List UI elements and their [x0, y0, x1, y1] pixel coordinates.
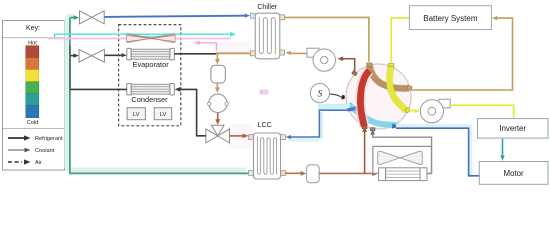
svg-text:Cold: Cold — [27, 120, 39, 126]
wire black valve to condenser — [175, 87, 206, 136]
wire tan chiller top-right to octovalve and battery — [285, 17, 369, 61]
wire yellow pump P2 to inverter — [450, 105, 513, 118]
LCC body — [254, 133, 281, 179]
wire teal inverter to motor — [500, 138, 504, 161]
coolant pump P2 (inverter loop) — [420, 99, 450, 123]
wire tan junction to chiller bottom-left — [216, 52, 251, 54]
wire tan compressor pump feed from octovalve — [337, 56, 354, 72]
wire black branch to valve V2 — [70, 53, 78, 57]
chiller ports — [250, 13, 284, 56]
LCC label — [258, 122, 272, 129]
legend air arrow — [8, 159, 42, 166]
inverter box — [478, 119, 549, 139]
temperature gradient bar — [26, 46, 39, 118]
wire black valve V2 to evaporator — [105, 53, 127, 57]
octovalve yellow channel — [389, 66, 406, 111]
radiator fan — [378, 151, 423, 164]
teal line end at LCC bottom-left port — [244, 172, 249, 174]
air line cyan — [55, 32, 236, 39]
cabin blower fan — [126, 33, 175, 42]
svg-text:Battery System: Battery System — [423, 14, 478, 23]
motor box — [479, 162, 548, 185]
LV box 2 — [154, 108, 172, 120]
wire black evaporator out — [174, 53, 217, 55]
radiator fan box — [373, 146, 432, 173]
label Chiller — [257, 4, 278, 11]
blue arrow out of octovalve cyan channel — [392, 124, 400, 129]
octovalve tan channel — [370, 66, 410, 89]
svg-text:Inverter: Inverter — [499, 124, 526, 133]
valve V1 — [80, 11, 105, 24]
compressor — [208, 94, 229, 112]
LCC ports — [249, 135, 286, 176]
coolant pump P1 (chiller loop) — [307, 48, 335, 71]
octovalve halo — [345, 63, 413, 131]
sensor arrow to octovalve — [330, 94, 350, 100]
svg-text:S: S — [318, 89, 323, 99]
wire yellow octovalve to pump P2 — [408, 109, 421, 113]
wire gray radiator to octovalve — [370, 129, 431, 174]
svg-text:Motor: Motor — [504, 169, 525, 178]
svg-text:Key:: Key: — [26, 25, 40, 32]
octovalve indigo channel — [348, 104, 363, 110]
receiver tank — [211, 65, 225, 83]
three-way valve — [206, 125, 230, 143]
wire sienna compressor to 3-way valve — [215, 113, 220, 125]
wire sienna LCC to pump tank — [285, 171, 306, 176]
wire tan down to receiver tank — [215, 53, 220, 65]
valve V2 — [79, 49, 104, 62]
svg-text:LCC: LCC — [258, 122, 272, 129]
key label Hot — [28, 41, 37, 47]
sensor S circle — [310, 84, 329, 103]
condenser heat exchanger — [127, 84, 174, 96]
key label Cold — [27, 120, 39, 126]
octovalve red channel — [360, 71, 369, 127]
wire sienna pump tank to radiator — [319, 171, 378, 176]
svg-text:LV: LV — [133, 112, 140, 118]
wire blue valve V1 to chiller — [104, 14, 250, 18]
wire black condenser out left — [70, 88, 127, 90]
radiator heat exchanger — [379, 168, 427, 181]
key box — [3, 21, 65, 171]
svg-text:Refrigerant: Refrigerant — [35, 136, 63, 142]
evaporator heat exchanger — [127, 48, 174, 60]
pink return line to evaporator — [194, 41, 217, 51]
label Condenser — [131, 95, 168, 104]
svg-text:Evaporator: Evaporator — [133, 60, 170, 69]
wire tan pump to chiller bottom-right — [285, 51, 307, 55]
wire blue octovalve to LCC — [286, 110, 352, 140]
octovalve cyan channel — [318, 104, 398, 125]
octovalve port ticks — [352, 63, 413, 131]
cabin loop teal border band (left + bottom) — [67, 16, 246, 173]
chiller body — [255, 13, 280, 59]
hvac dashed box — [119, 25, 181, 126]
svg-text:Air: Air — [35, 160, 42, 166]
svg-text:Coolant: Coolant — [35, 148, 55, 154]
coolant pump tank — [307, 165, 320, 183]
svg-text:Condenser: Condenser — [131, 95, 168, 104]
battery system box — [409, 6, 491, 30]
wire tan battery right loop — [411, 16, 513, 90]
air line pink — [48, 38, 231, 40]
green arrow into valve V1 — [70, 15, 79, 20]
svg-text:LV: LV — [160, 112, 167, 118]
legend refrigerant arrow — [8, 135, 63, 142]
wire brown junction up to octovalve — [362, 126, 367, 173]
label Evaporator — [133, 60, 170, 69]
legend coolant arrow — [8, 148, 55, 154]
svg-text:Chiller: Chiller — [257, 4, 278, 11]
wire tan tank to compressor — [215, 83, 220, 93]
LV box 1 — [127, 108, 145, 120]
wire blue octovalve to motor with pale band — [396, 126, 479, 176]
wire yellow octovalve to battery — [391, 18, 409, 63]
octovalve rim — [346, 64, 411, 129]
wire sienna valve to LCC — [230, 134, 249, 139]
